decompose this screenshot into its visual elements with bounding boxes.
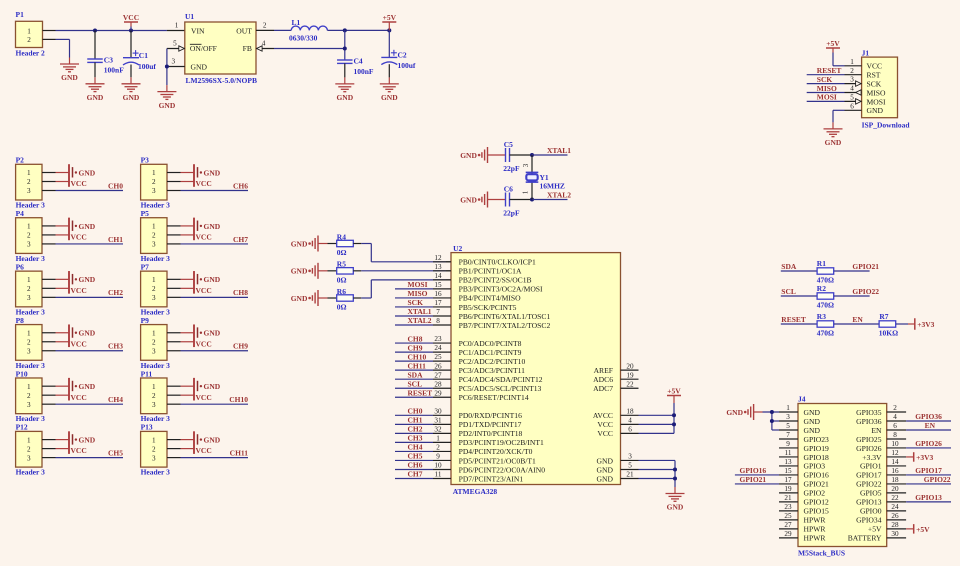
svg-text:GND: GND (381, 93, 398, 102)
svg-text:CH10: CH10 (408, 352, 427, 361)
svg-text:21: 21 (626, 471, 634, 479)
svg-text:GND: GND (291, 294, 308, 303)
svg-text:VCC: VCC (196, 179, 212, 188)
svg-text:P1: P1 (16, 10, 25, 19)
svg-text:EN: EN (871, 426, 882, 435)
svg-text:100uf: 100uf (138, 62, 156, 71)
svg-text:CH3: CH3 (408, 434, 423, 443)
svg-text:20: 20 (891, 485, 899, 493)
svg-text:P5: P5 (141, 209, 150, 218)
svg-text:GND: GND (804, 408, 821, 417)
svg-text:26: 26 (434, 362, 442, 370)
svg-text:CH11: CH11 (230, 449, 249, 458)
svg-text:GPIO16: GPIO16 (804, 471, 830, 480)
svg-text:18: 18 (626, 407, 634, 415)
svg-text:BATTERY: BATTERY (848, 534, 882, 543)
svg-text:GND: GND (291, 267, 308, 276)
svg-text:P10: P10 (16, 369, 28, 378)
svg-text:GND: GND (204, 382, 221, 391)
svg-text:VCC: VCC (71, 339, 87, 348)
svg-text:GPIO35: GPIO35 (856, 408, 882, 417)
svg-text:4: 4 (893, 413, 897, 421)
svg-text:PC4/ADC4/SDA/PCINT12: PC4/ADC4/SDA/PCINT12 (459, 375, 543, 384)
svg-text:GND: GND (123, 93, 140, 102)
svg-text:2: 2 (152, 178, 156, 186)
svg-text:1: 1 (27, 436, 31, 444)
svg-text:3: 3 (152, 187, 156, 195)
svg-text:28: 28 (434, 380, 442, 388)
svg-text:GPIO26: GPIO26 (856, 444, 882, 453)
svg-text:16MHZ: 16MHZ (540, 182, 565, 191)
svg-text:26: 26 (891, 512, 899, 520)
svg-text:3: 3 (27, 454, 31, 462)
svg-text:12: 12 (434, 254, 442, 262)
svg-text:0Ω: 0Ω (337, 276, 347, 285)
svg-text:+3V3: +3V3 (917, 320, 934, 329)
svg-text:U1: U1 (185, 12, 194, 21)
svg-text:2: 2 (27, 178, 31, 186)
svg-text:GPIO26: GPIO26 (915, 439, 942, 448)
svg-text:15: 15 (784, 467, 792, 475)
svg-text:R7: R7 (879, 312, 888, 321)
svg-text:3: 3 (152, 241, 156, 249)
svg-text:8: 8 (436, 317, 440, 325)
svg-text:GPIO16: GPIO16 (740, 466, 767, 475)
svg-text:PC0/ADC0/PCINT8: PC0/ADC0/PCINT8 (459, 339, 522, 348)
svg-text:1: 1 (522, 190, 530, 194)
svg-text:GND: GND (61, 73, 78, 82)
svg-text:VCC: VCC (867, 62, 883, 71)
svg-text:1: 1 (786, 404, 790, 412)
svg-text:GND: GND (204, 329, 221, 338)
svg-text:XTAL2: XTAL2 (547, 190, 571, 199)
svg-text:FB: FB (243, 44, 252, 53)
svg-text:14: 14 (891, 458, 899, 466)
svg-text:0Ω: 0Ω (337, 248, 347, 257)
svg-text:VCC: VCC (196, 233, 212, 242)
svg-text:GPIO17: GPIO17 (856, 471, 882, 480)
svg-text:U2: U2 (453, 244, 462, 253)
svg-text:SCK: SCK (408, 298, 424, 307)
svg-text:15: 15 (434, 281, 442, 289)
svg-text:VCC: VCC (597, 429, 613, 438)
svg-text:GND: GND (204, 436, 221, 445)
svg-text:P3: P3 (141, 156, 150, 165)
svg-text:P7: P7 (141, 262, 150, 271)
svg-text:27: 27 (784, 521, 792, 529)
svg-text:1: 1 (175, 22, 179, 30)
svg-text:Header 3: Header 3 (141, 468, 170, 477)
svg-text:19: 19 (784, 485, 792, 493)
svg-text:ATMEGA328: ATMEGA328 (453, 487, 498, 496)
svg-text:25: 25 (434, 353, 442, 361)
svg-text:29: 29 (784, 530, 792, 538)
svg-text:28: 28 (891, 521, 899, 529)
svg-text:PC3/ADC3/PCINT11: PC3/ADC3/PCINT11 (459, 366, 526, 375)
svg-text:PD4/PCINT20/XCK/T0: PD4/PCINT20/XCK/T0 (459, 447, 533, 456)
svg-text:PB3/PCINT3/OC2A/MOSI: PB3/PCINT3/OC2A/MOSI (459, 285, 543, 294)
svg-text:22: 22 (891, 494, 899, 502)
svg-text:16: 16 (891, 467, 899, 475)
svg-text:GND: GND (460, 151, 477, 160)
svg-text:MOSI: MOSI (408, 280, 428, 289)
svg-text:17: 17 (784, 476, 792, 484)
svg-text:100nF: 100nF (354, 67, 374, 76)
svg-text:CH0: CH0 (108, 181, 123, 190)
svg-text:2: 2 (27, 445, 31, 453)
svg-text:HPWR: HPWR (804, 525, 827, 534)
svg-text:PC2/ADC2/PCINT10: PC2/ADC2/PCINT10 (459, 357, 526, 366)
svg-text:P6: P6 (16, 262, 25, 271)
svg-text:GPIO21: GPIO21 (740, 475, 767, 484)
svg-text:ADC7: ADC7 (593, 384, 613, 393)
svg-text:3: 3 (152, 454, 156, 462)
svg-text:GND: GND (204, 275, 221, 284)
svg-text:GND: GND (804, 417, 821, 426)
svg-text:1: 1 (152, 329, 156, 337)
svg-text:XTAL1: XTAL1 (408, 307, 432, 316)
svg-text:1: 1 (27, 27, 31, 35)
svg-text:CH4: CH4 (108, 395, 123, 404)
svg-text:GPIO22: GPIO22 (856, 480, 882, 489)
svg-text:VCC: VCC (71, 179, 87, 188)
svg-text:J4: J4 (798, 395, 806, 404)
svg-text:30: 30 (891, 530, 899, 538)
svg-text:GND: GND (597, 456, 614, 465)
svg-text:PB2/PCINT2/SS/OC1B: PB2/PCINT2/SS/OC1B (459, 276, 532, 285)
svg-text:9: 9 (786, 440, 790, 448)
svg-text:6: 6 (850, 102, 854, 110)
svg-text:23: 23 (434, 335, 442, 343)
svg-text:P12: P12 (16, 423, 28, 432)
svg-text:EN: EN (925, 421, 936, 430)
svg-text:R6: R6 (337, 287, 346, 296)
svg-text:ISP_Download: ISP_Download (862, 120, 911, 129)
svg-text:PC6/RESET/PCINT14: PC6/RESET/PCINT14 (459, 393, 529, 402)
svg-text:2: 2 (27, 232, 31, 240)
svg-text:P11: P11 (141, 369, 153, 378)
svg-text:+5V: +5V (667, 387, 681, 396)
svg-text:HPWR: HPWR (804, 534, 827, 543)
svg-text:CH0: CH0 (408, 407, 423, 416)
svg-text:CH7: CH7 (233, 235, 248, 244)
svg-text:PB4/PCINT4/MISO: PB4/PCINT4/MISO (459, 294, 522, 303)
svg-text:12: 12 (891, 449, 899, 457)
svg-text:27: 27 (434, 371, 442, 379)
svg-text:10: 10 (434, 462, 442, 470)
svg-text:GPIO5: GPIO5 (860, 489, 882, 498)
svg-text:OUT: OUT (236, 27, 252, 36)
svg-text:AREF: AREF (594, 366, 613, 375)
svg-text:GND: GND (79, 436, 96, 445)
svg-text:SCL: SCL (781, 287, 796, 296)
svg-text:VCC: VCC (71, 393, 87, 402)
svg-text:Header 2: Header 2 (16, 49, 45, 58)
svg-text:C4: C4 (354, 56, 363, 65)
svg-text:GPIO22: GPIO22 (852, 287, 879, 296)
svg-text:2: 2 (27, 338, 31, 346)
svg-text:2: 2 (850, 67, 854, 75)
svg-text:+3.3V: +3.3V (862, 453, 882, 462)
svg-text:VCC: VCC (196, 339, 212, 348)
svg-text:PD7/PCINT23/AIN1: PD7/PCINT23/AIN1 (459, 474, 524, 483)
svg-text:8: 8 (893, 431, 897, 439)
svg-text:CH1: CH1 (408, 416, 423, 425)
svg-text:VCC: VCC (196, 446, 212, 455)
svg-text:PC1/ADC1/PCINT9: PC1/ADC1/PCINT9 (459, 348, 522, 357)
svg-text:+5V: +5V (916, 525, 930, 534)
svg-text:CH4: CH4 (408, 443, 423, 452)
svg-text:4: 4 (628, 416, 632, 424)
svg-text:GND: GND (204, 222, 221, 231)
svg-text:+5V: +5V (868, 525, 882, 534)
svg-text:J1: J1 (862, 48, 870, 57)
svg-text:2: 2 (152, 338, 156, 346)
svg-text:PB7/PCINT7/XTAL2/TOSC2: PB7/PCINT7/XTAL2/TOSC2 (459, 321, 551, 330)
svg-text:+5V: +5V (383, 13, 397, 22)
svg-text:GPIO15: GPIO15 (804, 507, 830, 516)
svg-text:10: 10 (891, 440, 899, 448)
svg-text:+3V3: +3V3 (916, 453, 933, 462)
svg-text:GND: GND (79, 168, 96, 177)
svg-text:VCC: VCC (123, 13, 139, 22)
svg-text:GPIO13: GPIO13 (915, 493, 942, 502)
svg-text:GPIO1: GPIO1 (860, 462, 882, 471)
svg-text:XTAL1: XTAL1 (547, 146, 571, 155)
svg-text:HPWR: HPWR (804, 516, 827, 525)
svg-text:3: 3 (522, 163, 530, 167)
svg-text:1: 1 (27, 169, 31, 177)
svg-text:CH10: CH10 (229, 395, 248, 404)
svg-text:3: 3 (27, 187, 31, 195)
svg-text:GPIO2: GPIO2 (804, 489, 826, 498)
svg-text:100uf: 100uf (398, 61, 416, 70)
svg-text:LM2596SX-5.0/NOPB: LM2596SX-5.0/NOPB (186, 76, 257, 85)
svg-text:GND: GND (79, 329, 96, 338)
svg-text:VCC: VCC (71, 233, 87, 242)
svg-text:3: 3 (27, 241, 31, 249)
svg-text:GND: GND (460, 195, 477, 204)
svg-text:CH3: CH3 (108, 342, 123, 351)
svg-text:PC5/ADC5/SCL/PCINT13: PC5/ADC5/SCL/PCINT13 (459, 384, 542, 393)
svg-text:SDA: SDA (781, 262, 797, 271)
svg-text:MOSI: MOSI (817, 93, 837, 102)
svg-text:GND: GND (667, 503, 684, 512)
svg-text:R1: R1 (817, 259, 826, 268)
svg-text:GPIO25: GPIO25 (856, 435, 882, 444)
svg-text:GPIO17: GPIO17 (915, 466, 942, 475)
svg-text:R5: R5 (337, 260, 346, 269)
svg-text:1: 1 (436, 435, 440, 443)
svg-text:GPIO13: GPIO13 (856, 498, 882, 507)
svg-text:SCK: SCK (867, 80, 882, 89)
svg-text:PD1/TXD/PCINT17: PD1/TXD/PCINT17 (459, 420, 522, 429)
svg-text:2: 2 (152, 445, 156, 453)
svg-text:3: 3 (172, 58, 176, 66)
svg-text:14: 14 (434, 272, 442, 280)
svg-text:2: 2 (436, 444, 440, 452)
svg-text:CH2: CH2 (408, 425, 423, 434)
svg-text:9: 9 (436, 453, 440, 461)
svg-text:13: 13 (434, 263, 442, 271)
svg-text:5: 5 (173, 40, 177, 48)
svg-text:PD0/RXD/PCINT16: PD0/RXD/PCINT16 (459, 411, 522, 420)
svg-text:CH8: CH8 (233, 288, 248, 297)
svg-text:20: 20 (626, 362, 634, 370)
svg-text:24: 24 (891, 503, 899, 511)
svg-text:7: 7 (786, 431, 790, 439)
svg-text:GND: GND (597, 465, 614, 474)
svg-text:MISO: MISO (817, 84, 837, 93)
svg-text:30: 30 (434, 407, 442, 415)
svg-text:SDA: SDA (408, 370, 424, 379)
svg-text:2: 2 (263, 22, 267, 30)
svg-text:10KΩ: 10KΩ (879, 328, 898, 337)
svg-text:1: 1 (27, 329, 31, 337)
svg-text:3: 3 (27, 401, 31, 409)
svg-text:GND: GND (291, 239, 308, 248)
svg-text:PB0/CINT0/CLKO/ICP1: PB0/CINT0/CLKO/ICP1 (459, 258, 536, 267)
svg-text:L1: L1 (292, 18, 301, 27)
svg-text:GPIO12: GPIO12 (804, 498, 830, 507)
svg-text:2: 2 (27, 36, 31, 44)
svg-text:17: 17 (434, 299, 442, 307)
svg-text:R4: R4 (337, 232, 346, 241)
svg-text:21: 21 (784, 494, 792, 502)
svg-text:GPIO3: GPIO3 (804, 462, 826, 471)
svg-text:7: 7 (436, 308, 440, 316)
svg-text:RST: RST (867, 71, 881, 80)
svg-text:3: 3 (786, 413, 790, 421)
svg-text:470Ω: 470Ω (817, 300, 834, 309)
svg-text:GND: GND (204, 168, 221, 177)
svg-text:GPIO19: GPIO19 (804, 444, 830, 453)
svg-text:GPIO23: GPIO23 (804, 435, 830, 444)
svg-text:3: 3 (152, 401, 156, 409)
svg-text:MISO: MISO (867, 88, 887, 97)
svg-text:11: 11 (785, 449, 792, 457)
svg-text:22pF: 22pF (503, 208, 520, 217)
svg-text:XTAL2: XTAL2 (408, 316, 432, 325)
svg-text:1: 1 (152, 223, 156, 231)
svg-text:ON/OFF: ON/OFF (190, 44, 217, 53)
svg-text:+5V: +5V (826, 39, 840, 48)
svg-text:GPIO34: GPIO34 (856, 516, 882, 525)
svg-text:CH6: CH6 (408, 461, 423, 470)
svg-text:C5: C5 (504, 140, 513, 149)
svg-text:C2: C2 (398, 51, 407, 60)
svg-text:GPIO21: GPIO21 (852, 262, 879, 271)
svg-text:VIN: VIN (191, 27, 205, 36)
svg-text:GND: GND (191, 62, 208, 71)
svg-text:PD6/PCINT22/OC0A/AIN0: PD6/PCINT22/OC0A/AIN0 (459, 465, 546, 474)
svg-text:25: 25 (784, 512, 792, 520)
svg-text:CH9: CH9 (408, 343, 423, 352)
svg-text:6: 6 (893, 422, 897, 430)
svg-text:GND: GND (804, 426, 821, 435)
svg-text:VCC: VCC (71, 446, 87, 455)
svg-text:VCC: VCC (597, 420, 613, 429)
svg-text:CH8: CH8 (408, 334, 423, 343)
svg-text:1: 1 (27, 223, 31, 231)
svg-text:Header 3: Header 3 (16, 468, 45, 477)
svg-text:GPIO21: GPIO21 (804, 480, 830, 489)
svg-text:2: 2 (152, 232, 156, 240)
svg-text:GND: GND (79, 275, 96, 284)
svg-text:SCK: SCK (817, 75, 833, 84)
svg-text:5: 5 (628, 462, 632, 470)
svg-text:VCC: VCC (71, 286, 87, 295)
svg-text:P4: P4 (16, 209, 25, 218)
svg-text:GPIO0: GPIO0 (860, 507, 882, 516)
svg-text:GND: GND (597, 474, 614, 483)
svg-text:P8: P8 (16, 316, 25, 325)
svg-text:3: 3 (628, 453, 632, 461)
svg-text:PD3/PCINT19/OC2B/INT1: PD3/PCINT19/OC2B/INT1 (459, 438, 544, 447)
svg-text:C6: C6 (504, 184, 513, 193)
svg-text:1: 1 (152, 383, 156, 391)
svg-text:MISO: MISO (408, 289, 428, 298)
svg-text:P13: P13 (141, 423, 153, 432)
svg-text:GND: GND (867, 106, 884, 115)
svg-text:PD2/INT0/PCINT18: PD2/INT0/PCINT18 (459, 429, 523, 438)
svg-text:PD5/PCINT21/OC0B/T1: PD5/PCINT21/OC0B/T1 (459, 456, 536, 465)
svg-text:RESET: RESET (781, 315, 806, 324)
svg-text:29: 29 (434, 389, 442, 397)
svg-text:3: 3 (850, 76, 854, 84)
svg-text:C3: C3 (104, 56, 113, 65)
svg-text:EN: EN (852, 315, 863, 324)
svg-text:3: 3 (27, 294, 31, 302)
svg-text:R3: R3 (817, 312, 826, 321)
svg-text:RESET: RESET (408, 388, 433, 397)
svg-text:32: 32 (434, 425, 442, 433)
svg-text:P2: P2 (16, 156, 25, 165)
svg-text:22pF: 22pF (503, 164, 520, 173)
svg-text:C1: C1 (139, 51, 148, 60)
svg-text:PB1/PCINT1/OC1A: PB1/PCINT1/OC1A (459, 267, 522, 276)
svg-text:ADC6: ADC6 (593, 375, 613, 384)
svg-text:1: 1 (152, 276, 156, 284)
svg-text:GPIO36: GPIO36 (915, 412, 942, 421)
svg-text:3: 3 (27, 347, 31, 355)
svg-text:31: 31 (434, 416, 442, 424)
svg-text:18: 18 (891, 476, 899, 484)
svg-text:CH11: CH11 (408, 361, 427, 370)
svg-text:GND: GND (87, 93, 104, 102)
svg-text:VCC: VCC (196, 286, 212, 295)
svg-text:1: 1 (27, 276, 31, 284)
svg-text:CH2: CH2 (108, 288, 123, 297)
svg-text:22: 22 (626, 380, 634, 388)
svg-text:VCC: VCC (196, 393, 212, 402)
svg-text:R2: R2 (817, 284, 826, 293)
svg-text:MOSI: MOSI (867, 97, 886, 106)
svg-text:11: 11 (435, 471, 442, 479)
svg-text:13: 13 (784, 458, 792, 466)
svg-text:1: 1 (27, 383, 31, 391)
svg-text:5: 5 (786, 422, 790, 430)
svg-text:2: 2 (27, 392, 31, 400)
svg-text:P9: P9 (141, 316, 150, 325)
svg-text:100nF: 100nF (104, 65, 124, 74)
svg-text:3: 3 (152, 347, 156, 355)
svg-text:PB6/PCINT6/XTAL1/TOSC1: PB6/PCINT6/XTAL1/TOSC1 (459, 312, 551, 321)
svg-text:4: 4 (850, 85, 854, 93)
svg-text:24: 24 (434, 344, 442, 352)
svg-text:1: 1 (850, 58, 854, 66)
svg-text:1: 1 (152, 169, 156, 177)
